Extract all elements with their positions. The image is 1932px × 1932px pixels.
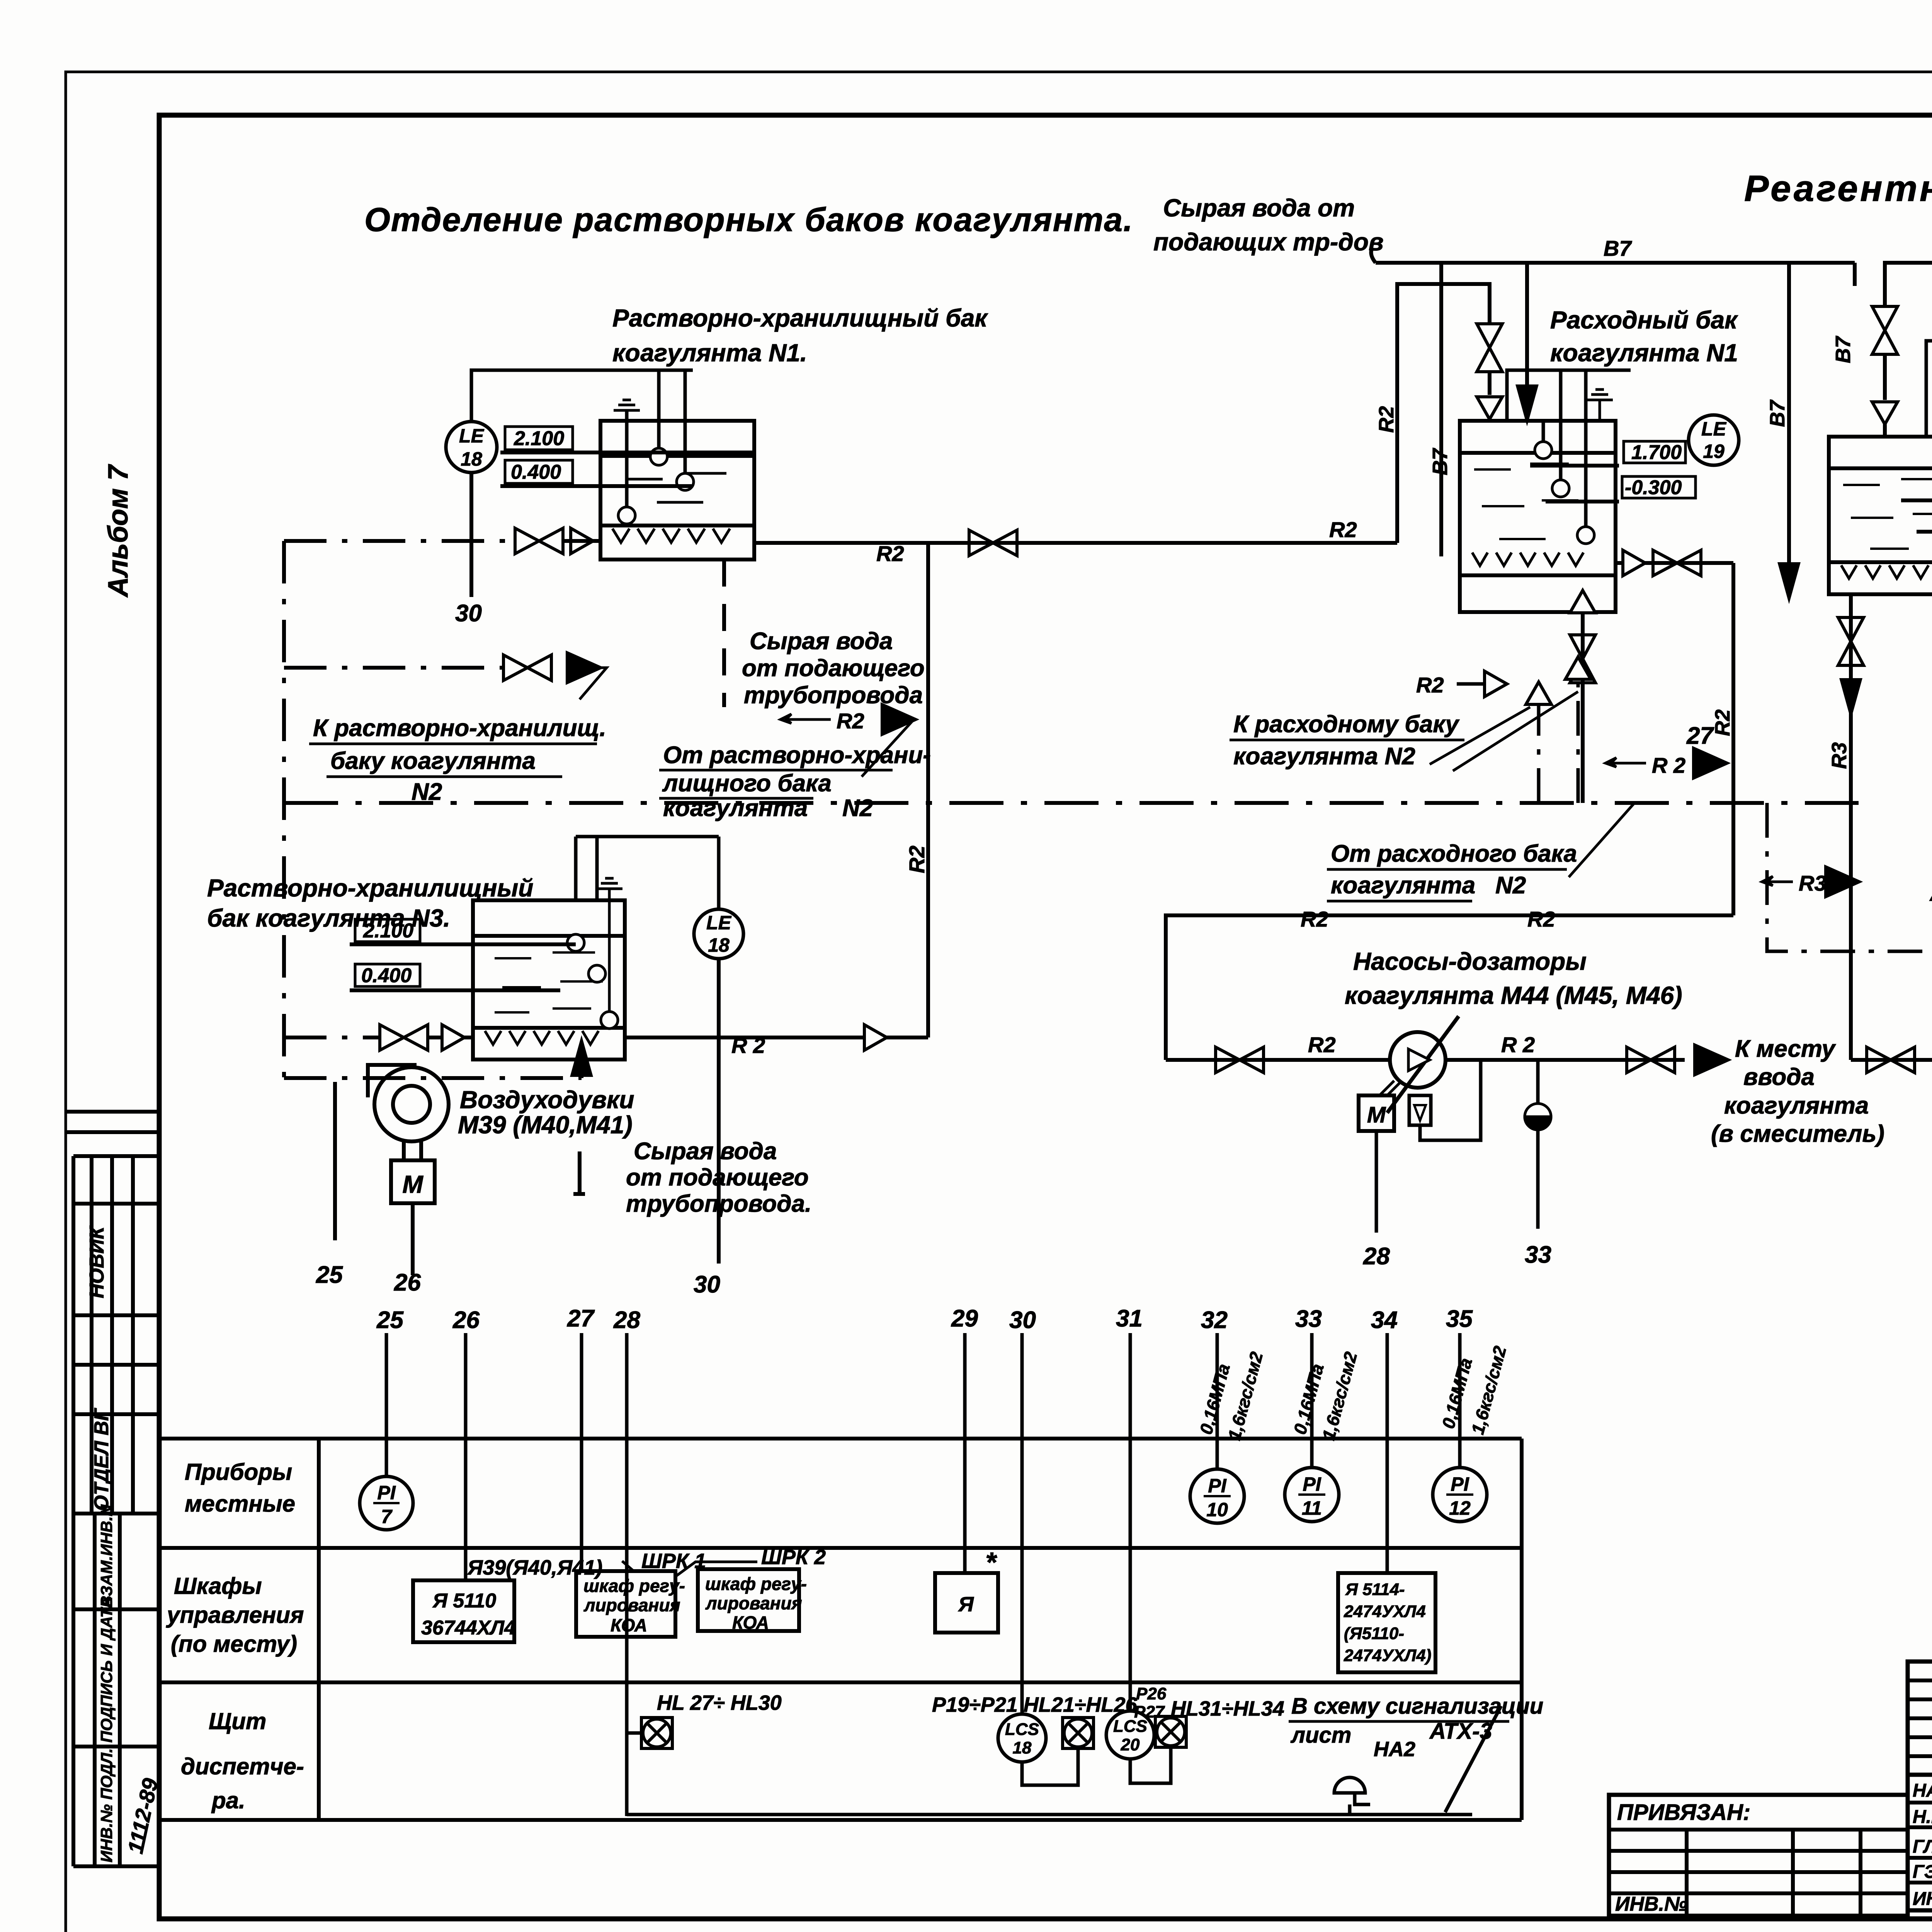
svg-text:PI: PI (1451, 1473, 1469, 1495)
svg-text:ГЛ.СПЕЦ.: ГЛ.СПЕЦ. (1913, 1837, 1932, 1857)
svg-text:18: 18 (708, 934, 730, 956)
lamp next to LCS18 (1063, 1718, 1094, 1748)
svg-text:30: 30 (1009, 1307, 1036, 1333)
svg-text:В7: В7 (1832, 335, 1855, 363)
svg-text:К расходному баку: К расходному баку (1233, 711, 1460, 738)
tank T4 body (1829, 437, 1932, 594)
svg-text:27: 27 (1686, 723, 1714, 749)
floats T2 (1535, 442, 1552, 459)
svg-text:Сырая вода: Сырая вода (634, 1138, 777, 1165)
tag drop lines (385, 1333, 388, 1476)
svg-text:25: 25 (316, 1262, 343, 1288)
svg-text:(Я5110-: (Я5110- (1344, 1624, 1404, 1643)
arrow down (1517, 386, 1537, 422)
svg-text:В7: В7 (1429, 447, 1452, 475)
tank T2 body (1460, 421, 1616, 612)
svg-text:2.100: 2.100 (363, 920, 413, 942)
svg-text:коагулянта: коагулянта (1724, 1092, 1869, 1119)
svg-text:2474УХЛ4: 2474УХЛ4 (1344, 1602, 1426, 1621)
privyazan block (1609, 1795, 1908, 1916)
svg-text:R2: R2 (1329, 517, 1357, 542)
svg-text:Шкафы: Шкафы (174, 1573, 262, 1599)
blower volute (368, 1065, 449, 1141)
svg-text:(в смеситель): (в смеситель) (1711, 1121, 1884, 1147)
row divider 2 (159, 1680, 1522, 1684)
svg-text:0.400: 0.400 (361, 964, 412, 987)
svg-text:лист: лист (1290, 1723, 1351, 1748)
svg-text:19: 19 (1703, 440, 1725, 462)
ground T2 (1587, 389, 1613, 410)
air header from riser (284, 1076, 582, 1080)
tag line 26 from motor (411, 1203, 415, 1275)
svg-text:31: 31 (1116, 1305, 1143, 1332)
svg-text:R2: R2 (1416, 673, 1444, 697)
table top (159, 1437, 1522, 1440)
svg-text:М: М (1367, 1102, 1386, 1128)
svg-text:от подающего: от подающего (626, 1164, 809, 1191)
svg-text:НАЧ.ОТД.: НАЧ.ОТД. (1913, 1781, 1932, 1801)
gauge PI 7 (360, 1476, 413, 1530)
float 1 T3 (567, 934, 584, 951)
svg-text:-0.300: -0.300 (1625, 476, 1682, 499)
svg-text:LE: LE (1701, 418, 1727, 440)
svg-text:30: 30 (694, 1271, 720, 1298)
svg-text:R2: R2 (837, 709, 864, 733)
svg-text:33: 33 (1525, 1242, 1551, 1268)
svg-text:ШРК 2: ШРК 2 (761, 1546, 826, 1569)
recirculation loop (1420, 1060, 1481, 1140)
setpoint box 2.100 T3 (355, 919, 420, 942)
svg-text:35: 35 (1446, 1306, 1473, 1332)
selector LCS18 (998, 1714, 1046, 1762)
svg-text:коагулянта М44 (М45, М46): коагулянта М44 (М45, М46) (1345, 981, 1682, 1009)
gauge PI 11 (1285, 1468, 1339, 1522)
arrow to mixer (1694, 1044, 1729, 1075)
svg-text:Сырая вода от: Сырая вода от (1163, 194, 1355, 222)
svg-text:Сырая вода: Сырая вода (750, 628, 893, 655)
B7 drop into T-coag-1 area (1439, 263, 1443, 556)
R2 riser jumper (1397, 284, 1490, 543)
blower shaft (404, 1141, 421, 1160)
svg-text:R2: R2 (876, 541, 904, 566)
svg-text:28: 28 (613, 1307, 640, 1333)
svg-text:R2: R2 (1308, 1032, 1336, 1057)
level gauge LE19 (1689, 415, 1739, 465)
svg-text:трубопровода: трубопровода (744, 682, 923, 709)
gauge PI 12 (1433, 1468, 1487, 1522)
T4 probe wiring (1926, 341, 1932, 502)
setpoint box 2.100 (505, 427, 573, 450)
svg-text:от подающего: от подающего (742, 655, 925, 682)
svg-text:R 2: R 2 (1652, 753, 1685, 777)
valve (1216, 1047, 1264, 1073)
svg-text:Отделение растворных баков коа: Отделение растворных баков коагулянта. (364, 201, 1133, 238)
svg-text:Насосы-дозаторы: Насосы-дозаторы (1353, 947, 1587, 975)
svg-text:шкаф регу-: шкаф регу- (705, 1574, 807, 1594)
svg-text:Расходный бак: Расходный бак (1550, 306, 1738, 334)
svg-text:ввода: ввода (1743, 1064, 1815, 1090)
cabinet box Я5110 (413, 1580, 514, 1642)
svg-text:N2: N2 (842, 795, 873, 821)
level probe wiring T1 top (471, 370, 693, 507)
svg-text:20: 20 (1121, 1735, 1140, 1754)
valve on T1 feed (515, 528, 563, 554)
check triangle down (1477, 397, 1502, 419)
tank T3 liquid marks (495, 952, 603, 1012)
leaders (1430, 692, 1578, 771)
svg-text:лирования: лирования (705, 1593, 802, 1613)
svg-text:18: 18 (1013, 1738, 1032, 1757)
svg-text:Растворно-хранилищный бак: Растворно-хранилищный бак (612, 304, 988, 332)
discharge pipe (1446, 1058, 1685, 1062)
ground T3 (596, 878, 622, 899)
central signature grid (1908, 1662, 1932, 1910)
actuator box with arrow (1409, 1095, 1431, 1125)
T3 outlet to right (625, 1036, 928, 1039)
svg-text:R 2: R 2 (731, 1033, 765, 1058)
svg-text:Приборы: Приборы (185, 1459, 292, 1485)
B7 header pipe (1371, 247, 1855, 263)
LE18 stem down to tag 30 (469, 473, 473, 597)
svg-text:КОА: КОА (611, 1615, 647, 1635)
T1 outlet pipe R2 to the right (754, 541, 1397, 545)
svg-text:R2: R2 (1527, 907, 1555, 931)
float 3 T1 (618, 507, 635, 524)
dash-dot риser with open arrow (1537, 696, 1541, 803)
T2 probe rods (1507, 370, 1631, 527)
svg-text:PI: PI (377, 1482, 396, 1503)
collector pipe (1166, 915, 1733, 1060)
svg-text:R2: R2 (1375, 406, 1398, 433)
svg-text:R2: R2 (905, 845, 929, 873)
svg-text:Н.КОНТР.: Н.КОНТР. (1913, 1807, 1932, 1827)
underline (350, 988, 560, 992)
svg-text:В схему сигнализации: В схему сигнализации (1291, 1694, 1543, 1719)
svg-text:33: 33 (1295, 1306, 1322, 1332)
svg-text:ОТДЕЛ ВГ: ОТДЕЛ ВГ (90, 1408, 113, 1511)
T2 bottom outlet (1581, 612, 1585, 803)
gauge PI 10 (1190, 1469, 1244, 1523)
cabinet box Я5114 (1338, 1573, 1435, 1672)
svg-text:Щит: Щит (209, 1708, 266, 1734)
svg-text:От растворно-храни-: От растворно-храни- (663, 742, 931, 769)
svg-text:Р19÷Р21 HL21÷HL26: Р19÷Р21 HL21÷HL26 (932, 1693, 1138, 1716)
svg-text:коагулянта: коагулянта (663, 795, 808, 821)
svg-text:LCS: LCS (1113, 1717, 1147, 1736)
setpoint box 0.400 (505, 460, 573, 483)
svg-text:32: 32 (1201, 1307, 1228, 1333)
T2 side outlet with valves (1616, 561, 1733, 565)
svg-text:R3: R3 (1799, 871, 1827, 895)
svg-text:HL31÷HL34: HL31÷HL34 (1171, 1697, 1284, 1720)
float 2 T1 (677, 473, 694, 490)
svg-text:М39 (М40,М41): М39 (М40,М41) (458, 1111, 633, 1139)
dash-dot elbow (1767, 803, 1932, 951)
svg-text:коагулянта N2: коагулянта N2 (1233, 743, 1415, 770)
valve on drop into tank (1477, 324, 1502, 372)
svg-text:PI: PI (1303, 1473, 1321, 1495)
svg-text:28: 28 (1363, 1243, 1390, 1270)
svg-text:25: 25 (376, 1307, 404, 1333)
check triangle T3 feed (442, 1025, 464, 1050)
svg-text:36744ХЛ4: 36744ХЛ4 (421, 1617, 515, 1639)
valve on drop into PAA tank (1883, 286, 1887, 305)
stamp box middle (73, 1154, 159, 1158)
tag line 25 (333, 1082, 337, 1240)
svg-text:11: 11 (1302, 1497, 1322, 1519)
tank T3 body (473, 900, 625, 1060)
svg-text:LCS: LCS (1005, 1720, 1039, 1739)
valve on branch (503, 655, 551, 680)
svg-text:М: М (402, 1170, 423, 1198)
table bottom (159, 1818, 1522, 1822)
setpoint box -0.300 T2 (1622, 476, 1696, 498)
svg-text:ИНВ.№: ИНВ.№ (1615, 1893, 1687, 1915)
svg-text:Воздуходувки: Воздуходувки (460, 1086, 634, 1114)
svg-text:0.400: 0.400 (511, 461, 561, 483)
setpoint box 0.400 T3 (355, 964, 420, 986)
svg-text:управления: управления (166, 1602, 304, 1628)
svg-text:26: 26 (452, 1307, 480, 1333)
valve on T3 feed (380, 1025, 428, 1050)
LE18b stem down (717, 959, 721, 1264)
label column divider (317, 1439, 321, 1820)
svg-text:R3: R3 (1828, 742, 1851, 769)
svg-text:коагулянта N1: коагулянта N1 (1550, 339, 1738, 367)
tank T4 hatch (1841, 565, 1929, 578)
T3 feed pipe dash-dot (284, 1036, 381, 1039)
svg-text:ИНЖ.П К.: ИНЖ.П К. (1913, 1889, 1932, 1909)
flow tick (573, 1151, 585, 1194)
svg-text:1.700: 1.700 (1631, 441, 1682, 464)
svg-text:R2: R2 (1711, 709, 1734, 736)
svg-text:Я39(Я40,Я41): Я39(Я40,Я41) (467, 1556, 602, 1579)
svg-text:PI: PI (1208, 1475, 1226, 1497)
table right edge (1520, 1439, 1524, 1820)
feed pipe into T1 (dash-dot from left header) (284, 539, 510, 543)
leader tail (580, 668, 607, 699)
lamp next to LCS20 (1155, 1716, 1186, 1747)
tank T1 body (600, 421, 754, 560)
svg-text:R 2: R 2 (1501, 1032, 1535, 1057)
suction pipe (1166, 1058, 1390, 1062)
dashed stub from T1 bottom (722, 560, 726, 707)
sensor branch (1536, 1060, 1540, 1104)
T4 left bottom outlet R3 down (1849, 594, 1853, 1060)
leader from arrow to From-tank label (862, 719, 914, 777)
tank T2 liquid marks (1474, 464, 1578, 539)
svg-text:ВЗАМ.ИНВ.N: ВЗАМ.ИНВ.N (97, 1504, 116, 1607)
svg-text:лищного бака: лищного бака (662, 770, 832, 797)
svg-text:ИНВ.№ ПОДЛ.: ИНВ.№ ПОДЛ. (97, 1748, 116, 1862)
branch riser down to tank3 outlet (926, 543, 930, 1037)
svg-text:К месту: К месту (1735, 1036, 1837, 1062)
float 3 T3 (601, 1012, 618, 1029)
svg-text:LE: LE (459, 425, 485, 447)
svg-text:трубопровода.: трубопровода. (626, 1190, 811, 1217)
leader to От расходного бака (1569, 803, 1634, 877)
setpoint underline 2 (500, 484, 692, 488)
svg-text:подающих тр-дов: подающих тр-дов (1153, 228, 1384, 256)
svg-text:Р26: Р26 (1136, 1684, 1167, 1703)
valve on discharge (1627, 1047, 1675, 1073)
check triangle down (1872, 402, 1898, 424)
arrow down at end (1779, 563, 1799, 600)
tank T1 hatch (612, 529, 730, 543)
svg-text:2.100: 2.100 (514, 427, 564, 450)
svg-text:баку коагулянта: баку коагулянта (330, 748, 536, 774)
lamp HL27-30 (641, 1718, 672, 1748)
svg-text:НОВИК: НОВИК (86, 1226, 108, 1298)
tank T1 liquid marks (626, 473, 726, 502)
svg-text:18: 18 (461, 448, 482, 470)
svg-text:Я 5114-: Я 5114- (1345, 1580, 1405, 1599)
margin divider lines top block (66, 1110, 159, 1114)
svg-text:В7: В7 (1604, 236, 1632, 260)
R3 header pipe (1885, 263, 1932, 286)
float 1 T1 (650, 448, 667, 465)
setpoint underline 1 (500, 451, 754, 454)
left distribution riser (dash-dot) (282, 541, 286, 1078)
svg-text:В7: В7 (1766, 399, 1789, 427)
svg-text:коагулянта N1.: коагулянта N1. (612, 339, 807, 367)
R2 arrow under note (781, 714, 831, 723)
elbow down to R2 riser (1731, 563, 1735, 915)
svg-text:LE: LE (706, 912, 732, 934)
svg-text:27: 27 (567, 1305, 595, 1332)
underline (350, 942, 576, 946)
svg-text:лирования: лирования (583, 1595, 680, 1615)
svg-text:HL 27÷ HL30: HL 27÷ HL30 (657, 1691, 782, 1714)
svg-text:10: 10 (1206, 1499, 1228, 1520)
black arrow on branch (567, 652, 602, 683)
svg-text:К растворно-хранилищ.: К растворно-хранилищ. (313, 715, 606, 742)
long B7 riser (right of tank) (1787, 263, 1791, 568)
svg-text:ПОДПИСЬ И ДАТА: ПОДПИСЬ И ДАТА (97, 1597, 116, 1743)
svg-text:КОА: КОА (732, 1612, 769, 1633)
tank T2 hatch (1472, 553, 1583, 566)
pump M44 circle with slash (1390, 1032, 1446, 1088)
svg-text:*: * (985, 1547, 997, 1578)
svg-text:Реагентное: Реагентное (1744, 168, 1932, 209)
svg-text:Альбом 7: Альбом 7 (103, 464, 134, 598)
cabinet box Я (mixer unit) (935, 1573, 998, 1633)
valve on T1 outlet (969, 530, 1017, 556)
svg-text:НА2: НА2 (1374, 1738, 1415, 1761)
svg-text:7: 7 (381, 1506, 393, 1527)
check valve T1 feed (571, 528, 593, 554)
svg-text:(по месту): (по месту) (171, 1631, 297, 1657)
svg-text:Я 5110: Я 5110 (432, 1590, 496, 1612)
blower motor box M (391, 1160, 435, 1203)
svg-text:местные: местные (185, 1491, 295, 1517)
level gauge LE18 (tank3) (694, 909, 743, 959)
svg-text:Я: Я (957, 1593, 974, 1616)
svg-text:Растворно-хранилищный: Растворно-хранилищный (207, 874, 533, 902)
level gauge LE18 (446, 422, 497, 473)
setpoint box 1.700 T2 (1624, 441, 1685, 463)
ground T1 (614, 400, 640, 420)
tank T4 liquid marks (1843, 479, 1932, 549)
svg-text:29: 29 (951, 1305, 978, 1332)
svg-text:26: 26 (394, 1269, 421, 1296)
svg-text:ра.: ра. (211, 1787, 245, 1813)
svg-text:12: 12 (1449, 1497, 1471, 1519)
svg-text:34: 34 (1371, 1307, 1398, 1333)
svg-text:диспетче-: диспетче- (181, 1753, 304, 1779)
drop with black arrow into tank top (1525, 263, 1529, 390)
stamp box lower (93, 1514, 97, 1866)
tank T3 hatch (485, 1031, 599, 1044)
svg-text:R2: R2 (1301, 907, 1328, 931)
air arrow into T3 bottom (580, 1066, 583, 1078)
svg-text:30: 30 (455, 600, 482, 627)
branch line to tank N2 (284, 666, 503, 670)
R2 stub arrow right (1605, 758, 1646, 767)
svg-text:От расходного бака: От расходного бака (1331, 840, 1577, 867)
check triangle on T3 outlet (864, 1025, 887, 1050)
row3 bus (627, 1706, 1501, 1815)
R3 stub arrow (1762, 876, 1793, 886)
T3 probe wiring (576, 837, 719, 909)
selector LCS20 (1106, 1711, 1154, 1759)
tag 28 line (1375, 1131, 1378, 1233)
motor box M44 (1359, 1095, 1394, 1131)
float 2 T3 (588, 965, 605, 982)
suction pipe (1851, 1058, 1932, 1062)
svg-text:2474УХЛ4): 2474УХЛ4) (1344, 1646, 1431, 1665)
svg-text:коагулянта: коагулянта (1331, 872, 1475, 899)
cabinet box ШРК1 (576, 1571, 675, 1637)
svg-text:N2: N2 (1495, 872, 1526, 899)
svg-text:шкаф регу-: шкаф регу- (583, 1576, 685, 1596)
B7 elbow down at header end (1853, 263, 1857, 286)
svg-text:ПРИВЯЗАН:: ПРИВЯЗАН: (1617, 1800, 1750, 1825)
cabinet box ШРК2 (698, 1569, 799, 1631)
row divider 1 (159, 1546, 1522, 1550)
second riser with open arrow (1577, 672, 1580, 803)
svg-text:ГЭП: ГЭП (1913, 1862, 1932, 1882)
